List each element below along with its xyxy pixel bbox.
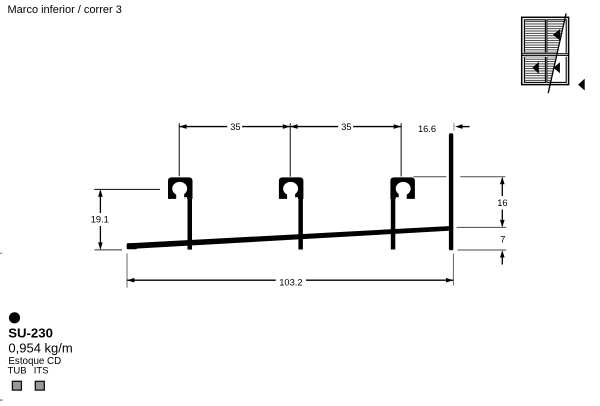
dimension 16.6 tail line	[462, 126, 470, 128]
dimension 35 #1 right arrow	[283, 124, 290, 129]
extension line 103.2 left	[127, 253, 128, 287]
dimension 35 #1 line	[179, 126, 290, 128]
dimension 7 up arrow below	[500, 250, 505, 257]
profile base bar	[127, 226, 449, 249]
window icon arrow 4	[578, 79, 585, 91]
dimension 16 down arrow	[500, 220, 505, 227]
extension line 103.2 right	[453, 254, 454, 286]
dimension 19.1 top tick	[94, 189, 160, 190]
window icon left sash hatched	[524, 20, 545, 83]
window icon arrow 2	[532, 62, 538, 74]
legend square 1	[12, 381, 21, 390]
extension line wall bottom right	[458, 249, 507, 251]
profile stem 2	[298, 180, 303, 250]
svg-text:19.1: 19.1	[91, 215, 109, 225]
window icon outer frame	[522, 17, 569, 84]
bullet dot	[9, 312, 20, 323]
svg-text:16: 16	[497, 198, 507, 208]
extension tick wall top	[453, 123, 454, 131]
extension line rail2	[290, 123, 291, 176]
extension line rail1	[179, 123, 180, 176]
dimension 35 #2 left arrow	[290, 124, 297, 129]
legend square 2	[35, 381, 44, 390]
window icon right sash hatch region	[547, 20, 565, 83]
dimension 103.2 right arrow	[446, 278, 453, 283]
dimension 7 tail line	[501, 257, 503, 265]
svg-text:ITS: ITS	[34, 366, 49, 377]
dimension 19.1 bottom tick	[94, 249, 122, 250]
svg-text:SU-230: SU-230	[8, 326, 53, 341]
svg-text:7: 7	[500, 234, 505, 244]
dimension 16 line	[501, 178, 503, 226]
dimension 19.1 down arrow	[98, 242, 103, 249]
window icon diagonal line	[548, 13, 566, 93]
window icon arrow 3	[554, 62, 560, 73]
svg-text:103.2: 103.2	[279, 278, 302, 288]
window icon mid rail band	[523, 53, 568, 57]
window icon mid rail	[522, 54, 569, 56]
svg-text:0,954 kg/m: 0,954 kg/m	[8, 341, 72, 356]
profile clip 1	[168, 177, 193, 199]
dimension 16.6 right arrow	[455, 124, 462, 129]
profile right wall	[449, 133, 453, 250]
dimension 19.1 up arrow	[98, 189, 103, 196]
dimension 16 up arrow	[500, 177, 505, 184]
extension line clip3 top to right	[414, 176, 506, 178]
profile base bar left tip	[127, 243, 138, 249]
profile stem 3	[391, 180, 396, 250]
dimension 35 #1 left arrow	[179, 124, 186, 129]
profile clip 3 (mirrored)	[390, 177, 415, 199]
svg-text:35: 35	[341, 122, 351, 132]
extension line bar top right	[457, 226, 507, 228]
dimension 103.2 line	[127, 279, 453, 281]
dimension 35 #2 line	[290, 126, 401, 128]
dimension 35 #2 right arrow	[394, 124, 401, 129]
svg-text:TUB: TUB	[8, 366, 27, 377]
dimension 103.2 left arrow	[127, 278, 134, 283]
wire	[0, 253, 2, 254]
extension line rail3	[401, 123, 402, 176]
svg-text:35: 35	[230, 122, 240, 132]
window icon right sash	[547, 20, 566, 83]
svg-text:16.6: 16.6	[418, 124, 436, 134]
profile clip 2	[279, 177, 304, 199]
dimension 19.1 line	[99, 191, 101, 249]
profile stem 1	[188, 180, 193, 250]
window icon arrow 1	[553, 29, 560, 41]
wire	[0, 399, 3, 400]
svg-text:Marco inferior / correr 3: Marco inferior / correr 3	[8, 4, 122, 16]
